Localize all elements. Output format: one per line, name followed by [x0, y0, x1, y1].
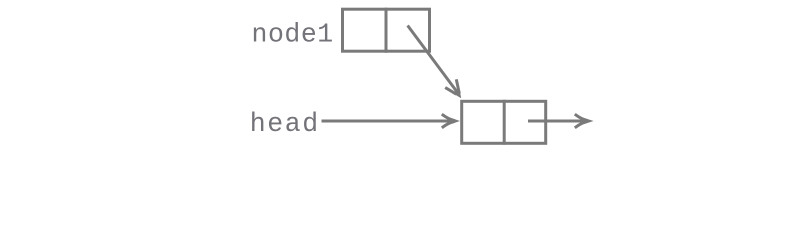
svg-text:head: head [250, 109, 320, 139]
svg-text:node1: node1 [252, 19, 334, 49]
